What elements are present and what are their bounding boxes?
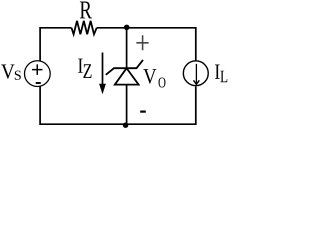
arrow inside IL — [195, 64, 197, 84]
voltage source VS circle — [24, 61, 50, 87]
node dot bottom — [123, 123, 128, 128]
minus sign inside VS — [36, 82, 41, 84]
label VS — [1, 64, 15, 78]
wire bottom segment — [40, 87, 196, 125]
label IL — [215, 65, 220, 79]
current arrow IZ shaft — [102, 53, 104, 86]
wire zener branch top — [126, 28, 128, 68]
current source IL circle — [183, 61, 208, 86]
wire top-right segment — [97, 28, 196, 61]
node dot top — [124, 25, 130, 31]
plus sign output VO — [136, 35, 148, 50]
plus sign inside VS — [32, 64, 43, 75]
label VO — [143, 69, 156, 84]
resistor R zigzag — [72, 21, 97, 34]
current arrow IZ head — [99, 84, 106, 95]
minus sign output VO — [140, 110, 146, 112]
wire zener branch bottom — [126, 85, 128, 125]
zener diode bar with bent ends — [106, 60, 143, 75]
label IZ — [78, 59, 83, 73]
label R — [80, 1, 92, 18]
zener diode triangle — [115, 68, 139, 84]
wire top-left segment — [40, 28, 71, 61]
